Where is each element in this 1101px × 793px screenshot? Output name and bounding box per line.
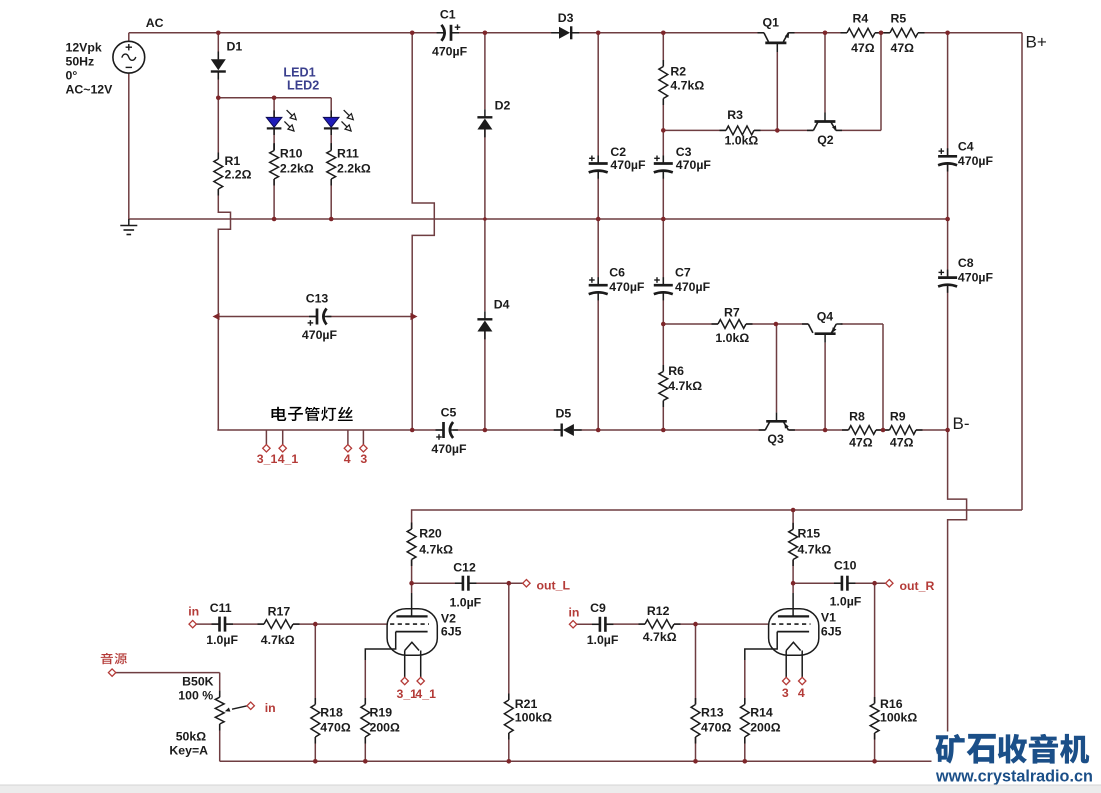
svg-text:1.0kΩ: 1.0kΩ <box>725 134 759 148</box>
svg-text:V1: V1 <box>821 611 836 625</box>
wire bottom ground rail <box>220 760 948 762</box>
svg-text:R5: R5 <box>891 12 907 26</box>
wire out_L row <box>412 582 463 584</box>
svg-text:R2: R2 <box>670 65 686 79</box>
wire filament stub 3 <box>362 430 364 445</box>
svg-text:50Hz: 50Hz <box>66 55 95 69</box>
svg-text:50kΩ: 50kΩ <box>176 730 207 744</box>
svg-text:100 %: 100 % <box>178 689 213 703</box>
svg-text:D1: D1 <box>227 40 243 54</box>
svg-text:470µF: 470µF <box>675 280 711 294</box>
svg-text:LED1: LED1 <box>283 66 315 80</box>
watermark background <box>932 732 1101 786</box>
wire ground drop with jog <box>948 430 967 761</box>
svg-text:C4: C4 <box>958 140 974 154</box>
wire R14 branch <box>744 660 746 705</box>
capacitor C2 <box>589 162 608 165</box>
transistor Q4 <box>815 332 836 335</box>
connector out_R <box>886 580 893 587</box>
wire out_R row <box>793 582 842 584</box>
wire Q3 base <box>776 324 778 412</box>
diode D5 <box>561 424 563 437</box>
svg-text:200Ω: 200Ω <box>750 721 781 735</box>
svg-text:C9: C9 <box>590 601 606 615</box>
svg-text:C13: C13 <box>306 292 329 306</box>
wire LED1 branch top <box>273 98 275 118</box>
svg-text:C7: C7 <box>675 266 691 280</box>
wire Q4 emitter to R8R9 node <box>841 323 883 325</box>
svg-text:12Vpk: 12Vpk <box>66 41 102 55</box>
svg-text:C6: C6 <box>609 266 625 280</box>
wire top rail <box>129 32 443 34</box>
wire AC source column <box>128 33 130 42</box>
transistor Q2 <box>815 120 836 123</box>
wire R3 row <box>663 129 726 131</box>
capacitor C9 <box>599 617 602 632</box>
svg-text:C11: C11 <box>210 601 232 615</box>
svg-text:R21: R21 <box>515 697 538 711</box>
svg-text:200Ω: 200Ω <box>370 721 401 735</box>
svg-text:Q2: Q2 <box>817 133 834 147</box>
wire Q2 emitter to R4R5 node <box>836 129 881 131</box>
wire R11 leads <box>330 128 332 150</box>
connector in right <box>569 621 576 628</box>
potentiometer pot body <box>219 691 221 698</box>
resistor R13 <box>695 698 697 705</box>
svg-text:470µF: 470µF <box>432 45 468 59</box>
svg-text:C3: C3 <box>676 145 692 159</box>
svg-text:Q1: Q1 <box>763 16 780 30</box>
svg-text:R1: R1 <box>225 154 241 168</box>
svg-text:R4: R4 <box>853 12 869 26</box>
svg-text:0°: 0° <box>66 69 78 83</box>
resistor R10 <box>273 144 275 151</box>
svg-text:R12: R12 <box>647 604 670 618</box>
connector pot in <box>247 702 254 709</box>
capacitor C5 <box>442 422 445 438</box>
junction dot D2 D4 midpoint <box>483 217 487 221</box>
svg-text:D2: D2 <box>495 99 511 113</box>
wire R16 branch <box>874 583 876 703</box>
connector out_L <box>523 580 530 587</box>
wire pot bottom <box>219 724 221 761</box>
capacitor C10 <box>841 576 844 591</box>
resistor R16 <box>874 697 876 704</box>
capacitor C4 <box>938 155 957 158</box>
svg-text:1.0µF: 1.0µF <box>450 596 482 610</box>
svg-text:470Ω: 470Ω <box>701 721 732 735</box>
svg-text:4_1: 4_1 <box>278 452 299 466</box>
svg-text:Q4: Q4 <box>817 310 834 324</box>
resistor R12 <box>639 623 646 625</box>
wire C13 row <box>218 316 317 318</box>
wire R19 branch <box>364 660 366 705</box>
wire R15 branch <box>792 510 794 529</box>
wire R1 bottom jog to filament corner <box>218 189 230 430</box>
svg-text:100kΩ: 100kΩ <box>515 711 552 725</box>
wire C2 C6 column <box>597 33 599 164</box>
connector in left <box>189 620 196 627</box>
svg-text:470µF: 470µF <box>431 442 467 456</box>
wire R7 row <box>663 323 718 325</box>
svg-text:B50K: B50K <box>182 675 214 689</box>
connector 4 filament <box>344 445 351 452</box>
label filament chinese <box>271 407 286 421</box>
svg-text:100kΩ: 100kΩ <box>880 711 917 725</box>
svg-text:Key=A: Key=A <box>169 744 208 758</box>
LED LED2 <box>323 117 339 127</box>
svg-text:R13: R13 <box>701 706 724 720</box>
svg-text:out_R: out_R <box>900 579 935 593</box>
svg-text:3: 3 <box>360 452 367 466</box>
svg-text:1.0µF: 1.0µF <box>206 633 238 647</box>
svg-text:R17: R17 <box>268 605 291 619</box>
wire Q1 base <box>776 52 778 130</box>
wire R15 to plate node <box>792 560 794 584</box>
svg-text:470µF: 470µF <box>958 154 994 168</box>
svg-text:R14: R14 <box>750 706 773 720</box>
resistor R5 <box>884 32 891 34</box>
svg-text:AC~12V: AC~12V <box>66 83 114 97</box>
svg-text:R3: R3 <box>727 108 743 122</box>
svg-text:4.7kΩ: 4.7kΩ <box>668 379 702 393</box>
capacitor C11 <box>218 617 221 632</box>
wire D2 D4 column <box>484 33 486 110</box>
wire B+ feed row <box>412 510 1022 529</box>
svg-text:R8: R8 <box>849 410 865 424</box>
bottom gray strip <box>0 785 1101 793</box>
wire V1 plate lead <box>792 583 794 593</box>
svg-text:www.crystalradio.cn: www.crystalradio.cn <box>935 768 1093 786</box>
svg-text:C10: C10 <box>834 559 857 573</box>
connector audio source <box>108 669 115 676</box>
svg-text:LED2: LED2 <box>287 79 319 93</box>
svg-text:3_1: 3_1 <box>397 687 418 701</box>
svg-text:1.0µF: 1.0µF <box>587 633 619 647</box>
resistor R4 <box>841 32 848 34</box>
capacitor C6 <box>589 284 608 287</box>
wire filament B- rail <box>217 429 443 431</box>
svg-text:C5: C5 <box>441 406 457 420</box>
wire R1 column <box>217 98 219 159</box>
svg-text:in: in <box>188 605 199 619</box>
label audio source chinese <box>101 653 113 664</box>
svg-text:4.7kΩ: 4.7kΩ <box>261 633 295 647</box>
svg-text:V2: V2 <box>441 612 456 626</box>
svg-text:470µF: 470µF <box>302 328 338 342</box>
tube V2 <box>387 609 437 656</box>
svg-text:6J5: 6J5 <box>441 625 462 639</box>
svg-text:R19: R19 <box>370 706 393 720</box>
svg-text:4.7kΩ: 4.7kΩ <box>643 630 677 644</box>
wire LED rail <box>218 97 331 99</box>
svg-text:B+: B+ <box>1026 33 1047 52</box>
svg-text:4: 4 <box>344 452 351 466</box>
connector 3_1 filament <box>263 445 270 452</box>
wire V2 plate lead <box>411 583 413 593</box>
wire B+ right rail down <box>1021 33 1023 510</box>
wire C3 C7 R2 R6 column <box>662 33 664 67</box>
wire R18 branch <box>314 624 316 704</box>
capacitor C3 <box>654 162 673 165</box>
junction dots <box>216 31 221 36</box>
wire filament stub 4_1 <box>282 430 284 445</box>
svg-text:3_1: 3_1 <box>257 452 278 466</box>
node C13 left junction <box>213 313 220 320</box>
wire C1 column with jog <box>412 33 434 430</box>
wire Q4 base <box>824 343 826 430</box>
resistor R19 <box>364 698 366 705</box>
node C13 right junction <box>411 313 418 320</box>
svg-text:47Ω: 47Ω <box>890 436 914 450</box>
svg-text:D5: D5 <box>556 407 572 421</box>
svg-text:C8: C8 <box>958 256 974 270</box>
svg-text:1.0µF: 1.0µF <box>830 595 862 609</box>
wire R20 to plate node <box>411 560 413 584</box>
svg-text:out_L: out_L <box>537 579 571 593</box>
wire Q2 base <box>824 33 826 113</box>
svg-text:4.7kΩ: 4.7kΩ <box>419 543 453 557</box>
svg-text:470µF: 470µF <box>609 280 645 294</box>
resistor R14 <box>744 698 746 705</box>
wire filament stub 3_1 <box>265 430 267 445</box>
svg-text:D3: D3 <box>558 11 574 25</box>
tube V1 <box>769 609 819 656</box>
svg-text:Q3: Q3 <box>767 432 784 446</box>
wire in_R to grid <box>573 623 600 625</box>
svg-text:R15: R15 <box>798 527 821 541</box>
svg-text:2.2kΩ: 2.2kΩ <box>280 162 314 176</box>
svg-text:R20: R20 <box>419 527 442 541</box>
diode D3 <box>570 26 572 39</box>
transistor Q3 <box>766 420 787 423</box>
svg-text:3: 3 <box>782 686 789 700</box>
resistor R2 <box>662 60 664 67</box>
pot wiper arrow <box>232 706 247 709</box>
svg-text:AC: AC <box>146 16 164 30</box>
svg-text:in: in <box>265 701 276 715</box>
svg-text:C2: C2 <box>610 145 626 159</box>
connector 3 filament <box>360 445 367 452</box>
svg-text:R7: R7 <box>724 306 740 320</box>
wire R13 branch <box>695 624 697 704</box>
svg-text:6J5: 6J5 <box>821 625 842 639</box>
wire R10 leads <box>273 128 275 150</box>
wire in_L to grid <box>193 623 220 625</box>
wire C4 C8 ground column <box>947 33 949 157</box>
svg-text:2.2Ω: 2.2Ω <box>225 168 252 182</box>
svg-text:47Ω: 47Ω <box>891 41 915 55</box>
transistor Q1 <box>765 42 786 45</box>
connector 4_1 filament <box>279 445 286 452</box>
svg-text:470µF: 470µF <box>676 158 712 172</box>
svg-text:4.7kΩ: 4.7kΩ <box>670 79 704 93</box>
capacitor C8 <box>938 276 957 279</box>
svg-text:47Ω: 47Ω <box>851 41 875 55</box>
svg-text:470µF: 470µF <box>610 158 646 172</box>
resistor R17 <box>258 623 265 625</box>
resistor R3 <box>720 129 727 131</box>
svg-text:470µF: 470µF <box>958 271 994 285</box>
svg-text:47Ω: 47Ω <box>849 436 873 450</box>
watermark logo <box>935 734 1089 764</box>
svg-text:B-: B- <box>953 414 970 433</box>
wire audio source row <box>116 672 220 674</box>
svg-text:C12: C12 <box>453 561 476 575</box>
capacitor C1 <box>450 25 453 41</box>
svg-text:R11: R11 <box>337 147 359 161</box>
capacitor C12 <box>462 576 465 591</box>
svg-text:2.2kΩ: 2.2kΩ <box>337 162 371 176</box>
svg-text:C1: C1 <box>440 8 456 22</box>
resistor R20 <box>411 523 413 530</box>
svg-text:R10: R10 <box>280 147 303 161</box>
resistor R11 <box>330 144 332 151</box>
wire R21 branch <box>508 583 510 700</box>
capacitor C13 <box>316 309 319 325</box>
ground symbol <box>128 219 130 226</box>
svg-text:R16: R16 <box>880 697 903 711</box>
svg-text:R6: R6 <box>668 364 684 378</box>
svg-text:4_1: 4_1 <box>415 687 436 701</box>
svg-text:in: in <box>569 606 580 620</box>
wire filament stub 4 <box>347 430 349 445</box>
LED LED1 <box>266 117 282 127</box>
svg-text:D4: D4 <box>494 298 510 312</box>
wire D1 column <box>217 33 219 60</box>
wire ground rail <box>129 218 948 220</box>
resistor R6 <box>662 365 664 372</box>
resistor R9 <box>883 429 890 431</box>
diode D4 <box>477 318 492 320</box>
svg-text:4: 4 <box>798 686 805 700</box>
resistor R8 <box>842 429 849 431</box>
AC source V1 circle <box>113 41 145 73</box>
resistor R15 <box>792 523 794 530</box>
svg-text:470Ω: 470Ω <box>320 721 351 735</box>
resistor R18 <box>314 698 316 705</box>
diode D2 <box>477 116 492 118</box>
resistor R1 <box>217 153 219 160</box>
svg-text:4.7kΩ: 4.7kΩ <box>798 543 832 557</box>
svg-text:R18: R18 <box>320 706 343 720</box>
resistor R7 <box>712 323 719 325</box>
diode D1 <box>211 70 226 72</box>
svg-text:R9: R9 <box>890 410 906 424</box>
resistor R21 <box>508 694 510 701</box>
svg-text:1.0kΩ: 1.0kΩ <box>715 331 749 345</box>
capacitor C7 <box>654 284 673 287</box>
